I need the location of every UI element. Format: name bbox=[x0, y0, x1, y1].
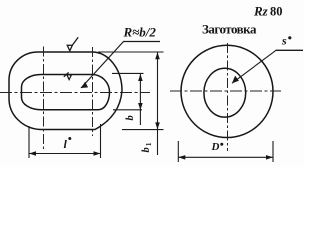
svg-text:D: D bbox=[211, 141, 220, 153]
svg-text:Rz: Rz bbox=[253, 4, 269, 19]
svg-text:1: 1 bbox=[144, 142, 153, 146]
svg-text:80: 80 bbox=[270, 5, 283, 19]
svg-text:b: b bbox=[141, 147, 152, 152]
svg-text:Заготовка: Заготовка bbox=[202, 22, 257, 37]
svg-text:l: l bbox=[64, 137, 68, 151]
svg-text:b: b bbox=[125, 115, 136, 120]
svg-text:R≈b/2: R≈b/2 bbox=[123, 25, 157, 40]
svg-text:s: s bbox=[281, 34, 287, 48]
